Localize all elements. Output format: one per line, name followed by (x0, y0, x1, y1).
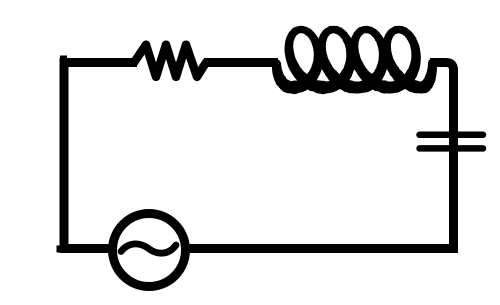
inductor L (coil, 4 loops, marker-style variable width) (272, 26, 437, 94)
top-left corner pen nub (60, 56, 67, 63)
AC source: sine tilde (121, 244, 176, 253)
AC source: circle (113, 214, 186, 287)
resistor R (zigzag) (134, 45, 206, 77)
wire: right vertical lower + bottom run to AC source (189, 136, 454, 249)
wire: top-left run, left vertical, bottom run to AC source (64, 63, 137, 249)
capacitor C: top plate (420, 132, 484, 139)
bottom-left corner pen notch (57, 246, 61, 253)
wire: inductor to top-right corner, right vertical through capacitor, bottom run to AC source (430, 63, 454, 141)
capacitor C: bottom plate (420, 145, 484, 152)
wire: resistor to inductor (204, 58, 278, 67)
